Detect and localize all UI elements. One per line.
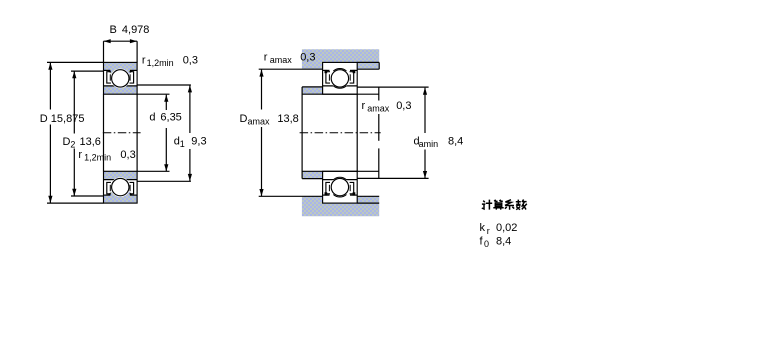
svg-text:r: r xyxy=(78,149,82,161)
svg-text:amax: amax xyxy=(367,104,390,114)
right view centre axis line xyxy=(300,132,381,134)
svg-text:0,3: 0,3 xyxy=(300,51,315,63)
svg-text:r: r xyxy=(487,226,490,236)
svg-text:k: k xyxy=(480,222,486,234)
left view lower inner ring shoulder line xyxy=(104,179,138,181)
housing section upper (blue) xyxy=(302,49,379,69)
dimension D2: extension lines xyxy=(71,70,104,72)
dimension damin: extension lines xyxy=(357,86,428,88)
svg-text:r: r xyxy=(362,100,366,112)
right view upper shield anchor notch left xyxy=(325,70,328,73)
svg-text:r: r xyxy=(142,55,146,67)
housing bore line right upper xyxy=(357,61,379,63)
left view upper shield right xyxy=(130,72,134,83)
left view upper raceway groove xyxy=(110,69,130,89)
right view lower outer ring inner-face lines xyxy=(323,194,330,196)
svg-text:6,35: 6,35 xyxy=(160,111,181,123)
right view lower ball xyxy=(331,178,348,195)
shaft surface lines xyxy=(302,93,379,95)
right view lower shield left xyxy=(326,182,330,193)
svg-text:d: d xyxy=(149,111,155,123)
dimension B: extension lines xyxy=(103,41,105,62)
svg-text:4,978: 4,978 xyxy=(122,24,150,36)
right view lower shield anchor notch left xyxy=(325,192,328,195)
svg-text:0,3: 0,3 xyxy=(120,149,135,161)
left view lower shield left xyxy=(107,182,111,193)
bearing side face line right view xyxy=(356,94,358,171)
svg-text:0,3: 0,3 xyxy=(396,100,411,112)
left view upper shield left xyxy=(107,72,111,83)
svg-text:8,4: 8,4 xyxy=(448,135,463,147)
svg-text:2: 2 xyxy=(70,139,75,149)
svg-text:1,2min: 1,2min xyxy=(84,152,111,162)
right view lower inner ring shoulder line xyxy=(323,179,358,181)
svg-text:0,02: 0,02 xyxy=(496,222,517,234)
right view lower ring outline xyxy=(323,171,358,203)
svg-text:9,3: 9,3 xyxy=(191,136,206,148)
left view lower ball xyxy=(112,178,129,195)
right view upper ring outline xyxy=(323,62,358,94)
dimension Damax: line xyxy=(261,70,263,110)
housing bore line right lower xyxy=(357,202,379,204)
left view lower outer ring section (blue) xyxy=(104,192,138,203)
left view lower shield anchor notch right xyxy=(130,192,133,195)
svg-text:D: D xyxy=(40,113,48,125)
svg-text:D: D xyxy=(63,136,71,148)
dimension B: arrows xyxy=(104,39,111,43)
dimension d: arrows xyxy=(164,95,168,102)
left view lower inner ring section (blue) xyxy=(104,171,138,179)
left view upper shield anchor notch right xyxy=(130,70,133,73)
svg-text:D: D xyxy=(240,113,248,125)
dimension Damax: arrows xyxy=(259,69,263,76)
svg-text:1,2min: 1,2min xyxy=(147,58,174,68)
dimension D2: arrows xyxy=(72,71,76,78)
title calculation factors (CJK strokes) xyxy=(482,200,527,210)
left view upper outer ring inner-face lines xyxy=(104,69,111,71)
right view upper shield right xyxy=(350,72,354,83)
right view upper shield left xyxy=(326,72,330,83)
dimension damin: line xyxy=(424,88,426,133)
shaft abutment collar lower (blue) xyxy=(302,171,323,178)
right view upper shield anchor notch right xyxy=(353,70,356,73)
left view centre axis line xyxy=(103,132,141,134)
housing section lower (blue) xyxy=(302,196,379,216)
shaft end face line xyxy=(378,87,380,100)
dimension d: extension lines xyxy=(137,93,169,95)
dimension damin: arrows xyxy=(423,88,427,95)
left view upper inner ring section (blue) xyxy=(104,86,138,94)
svg-text:13,8: 13,8 xyxy=(277,113,298,125)
dimension D: extension lines xyxy=(47,61,104,63)
svg-text:B: B xyxy=(110,24,117,36)
left view upper inner ring shoulder line xyxy=(104,85,138,87)
dimension D: arrows xyxy=(48,63,52,70)
dimension B: line xyxy=(104,40,138,42)
svg-text:0,3: 0,3 xyxy=(183,55,198,67)
dimension D2: line xyxy=(73,71,75,133)
svg-text:r: r xyxy=(264,51,268,63)
shaft collar left edge xyxy=(301,87,303,179)
svg-text:8,4: 8,4 xyxy=(496,236,511,248)
left view upper outer ring section (blue) xyxy=(104,62,138,73)
left view lower raceway groove xyxy=(110,177,130,197)
right view upper ball xyxy=(331,70,348,87)
left view upper ring outline xyxy=(104,62,138,94)
left view lower shield anchor notch left xyxy=(108,192,111,195)
right view lower raceway groove xyxy=(330,177,350,197)
svg-text:13,6: 13,6 xyxy=(80,136,101,148)
housing shoulder face lines lower xyxy=(259,195,323,197)
left view lower ring outline xyxy=(104,171,138,203)
dimension d: line xyxy=(165,95,167,110)
left view lower outer ring inner-face lines xyxy=(104,194,111,196)
svg-text:amax: amax xyxy=(248,117,271,127)
right view lower shield right xyxy=(350,182,354,193)
svg-text:amax: amax xyxy=(270,55,293,65)
right view lower shield anchor notch right xyxy=(353,192,356,195)
left view bore silhouette lines xyxy=(103,94,105,171)
right view upper outer ring inner-face lines xyxy=(323,69,330,71)
svg-text:0: 0 xyxy=(484,239,489,249)
left view lower shield right xyxy=(130,182,134,193)
shaft abutment collar upper (blue) xyxy=(302,87,323,94)
dimension d1: arrows xyxy=(188,85,192,92)
left view upper ball xyxy=(112,70,129,87)
dimension d1: extension lines xyxy=(137,84,191,86)
dimension d1: line xyxy=(189,85,191,133)
shaft collar face lines xyxy=(302,86,323,88)
dimension D: line xyxy=(49,63,51,110)
left view upper shield anchor notch left xyxy=(108,70,111,73)
right view upper raceway groove xyxy=(330,69,350,89)
right view upper inner ring shoulder line xyxy=(323,85,358,87)
housing shoulder face lines upper xyxy=(259,68,323,70)
svg-text:15,875: 15,875 xyxy=(51,113,85,125)
svg-text:1: 1 xyxy=(180,139,185,149)
svg-text:amin: amin xyxy=(419,139,439,149)
